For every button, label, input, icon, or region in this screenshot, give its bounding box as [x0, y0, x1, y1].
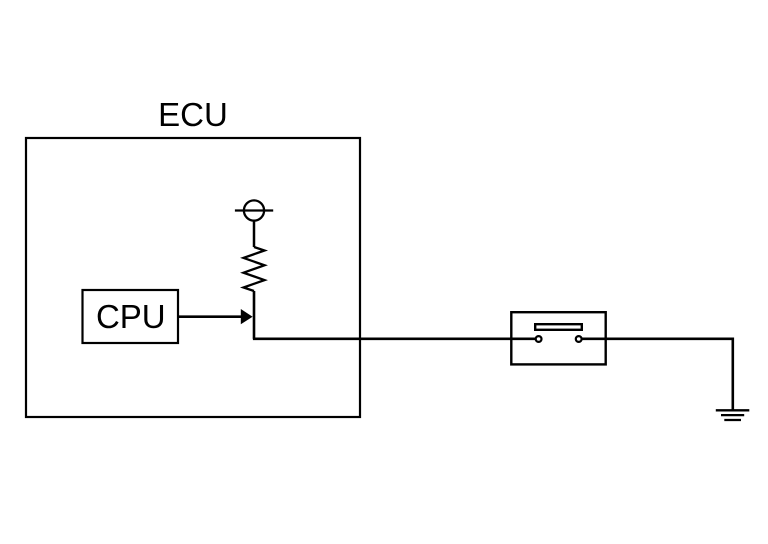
CPU box U1 — [83, 290, 179, 343]
switch box S1 — [511, 312, 605, 364]
switch contact left — [536, 336, 542, 342]
arrow CPU to node — [178, 309, 253, 324]
wire resistor to node — [253, 291, 256, 339]
switch blade bar — [535, 324, 582, 330]
wire power to resistor — [253, 221, 256, 247]
ECU box — [26, 138, 360, 417]
resistor R1 — [244, 247, 265, 291]
wire node to switch — [253, 337, 536, 340]
wire switch to ground corner — [582, 339, 733, 410]
ground symbol — [716, 410, 750, 420]
power supply symbol — [235, 200, 273, 220]
svg-text:CPU: CPU — [96, 298, 166, 335]
svg-text:ECU: ECU — [158, 96, 228, 133]
switch contact right — [576, 336, 582, 342]
